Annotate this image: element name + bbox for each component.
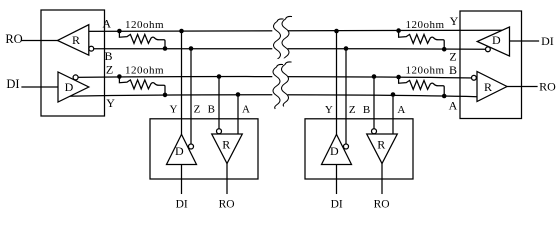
svg-text:B: B [208, 104, 215, 116]
inversion bubble U2 D output Z [189, 144, 194, 149]
wire RO output U1 [22, 40, 58, 42]
svg-text:120ohm: 120ohm [405, 65, 444, 77]
junction dot U2 Z on bus B [189, 46, 194, 51]
transceiver U4 box (right) [460, 11, 522, 119]
svg-text:DI: DI [331, 199, 343, 211]
op-amp receiver R of U1 (triangle) [58, 25, 89, 56]
inversion bubble U1 R input B [89, 46, 94, 51]
wire bus line Y (bottom pair, lower) [66, 95, 477, 97]
inversion bubble U2 R input B [217, 129, 222, 134]
op-amp driver D of U3 (triangle) [322, 134, 352, 164]
svg-text:Y: Y [450, 14, 459, 28]
op-amp receiver R of U3 (triangle) [367, 134, 398, 164]
junction dot RT1 bottom on bus B [163, 46, 168, 51]
op-amp driver D of U1 (triangle) [58, 72, 89, 102]
wire DI input U1 [22, 86, 58, 88]
junction dot U2 Y on bus A [179, 29, 184, 34]
svg-text:D: D [65, 80, 74, 94]
break gap mask lower pair [272, 58, 287, 104]
inversion bubble U3 D output Z [344, 144, 349, 149]
wire bus line B (top pair, lower) [89, 47, 486, 50]
svg-text:R: R [377, 138, 385, 152]
svg-text:B: B [363, 104, 370, 116]
wire U2 DI stub [181, 165, 183, 194]
svg-text:DI: DI [6, 77, 19, 91]
svg-text:B: B [449, 63, 457, 77]
svg-text:Y: Y [325, 104, 333, 116]
break squiggle lower-right [282, 62, 292, 106]
svg-text:R: R [72, 33, 80, 47]
junction dot U3 Y on bus A [334, 29, 339, 34]
junction dot RT4 bottom on bus Y [442, 94, 447, 99]
junction dot U3 B on bus Z [372, 74, 377, 79]
op-amp receiver R of U2 (triangle) [212, 134, 243, 164]
junction dot RT3 top on bus A [396, 28, 401, 33]
svg-text:A: A [449, 98, 458, 112]
junction dot RT2 bottom on bus Y [163, 93, 168, 98]
svg-text:D: D [175, 144, 184, 158]
svg-text:A: A [102, 17, 111, 31]
wire bus line Z (bottom pair, upper) [74, 77, 476, 78]
svg-text:A: A [397, 104, 405, 116]
svg-text:D: D [330, 144, 339, 158]
junction dot RT2 top on bus Z [117, 74, 122, 79]
junction dot U3 A on bus Y [391, 92, 396, 97]
svg-text:Y: Y [170, 104, 178, 116]
svg-text:Z: Z [194, 104, 201, 116]
wire U3 A column to bus Y [392, 95, 394, 135]
svg-text:120ohm: 120ohm [405, 19, 444, 31]
break squiggle upper-right [282, 16, 292, 60]
svg-text:RO: RO [5, 32, 22, 46]
inversion bubble U4 R input B [472, 75, 477, 80]
op-amp receiver R of U4 (triangle) [477, 72, 507, 102]
wire U3 Z column to bus B [345, 49, 347, 146]
wire U2 A column to bus Y [237, 95, 239, 135]
wire RO output U4 [507, 86, 537, 88]
break squiggle upper-left [274, 19, 284, 63]
wire U2 Z column to bus B [190, 49, 192, 146]
svg-text:R: R [484, 80, 492, 94]
svg-text:Z: Z [349, 104, 356, 116]
wire DI input U4 [510, 40, 539, 42]
wire U3 Y column to bus A [336, 31, 338, 134]
wire U2 RO stub [226, 164, 228, 194]
svg-text:120ohm: 120ohm [125, 65, 164, 77]
transceiver U3 box (middle-right) [305, 119, 413, 179]
svg-text:120ohm: 120ohm [125, 19, 164, 31]
transceiver U2 box (middle-left) [150, 119, 258, 179]
junction dot RT4 top on bus Z [396, 75, 401, 80]
junction dot U2 B on bus Z [217, 74, 222, 79]
svg-text:R: R [222, 138, 230, 152]
transceiver U1 box (left) [41, 10, 105, 116]
wire U3 RO stub [381, 164, 383, 194]
wire U3 DI stub [336, 165, 338, 194]
svg-text:A: A [242, 104, 250, 116]
svg-text:RO: RO [219, 199, 235, 211]
break gap mask upper pair [272, 13, 287, 59]
wire U2 Y column to bus A [181, 31, 183, 134]
resistor RT2 120ohm (left, Z-Y) [119, 77, 165, 95]
resistor RT1 120ohm (left, A-B) [119, 31, 165, 49]
junction dot RT3 bottom on bus B [442, 47, 447, 52]
svg-text:Y: Y [106, 96, 115, 110]
wire U3 B column to bus Z [373, 77, 375, 131]
junction dot RT1 top on bus A [117, 29, 122, 34]
junction dot U2 A on bus Y [236, 92, 241, 97]
resistor RT4 120ohm (right, Z-Y) [399, 77, 445, 96]
wire bus line A (top pair, upper) [76, 30, 503, 31]
svg-text:B: B [104, 49, 112, 63]
resistor RT3 120ohm (right, A-B) [399, 31, 445, 50]
junction dot U3 Z on bus B [344, 46, 349, 51]
inversion bubble U3 R input B [372, 129, 377, 134]
svg-text:Z: Z [449, 49, 456, 63]
svg-text:RO: RO [539, 79, 556, 93]
svg-text:DI: DI [541, 34, 554, 48]
break squiggle lower-left [273, 64, 283, 108]
svg-text:DI: DI [176, 199, 188, 211]
svg-text:RO: RO [374, 199, 390, 211]
svg-text:D: D [492, 33, 501, 47]
op-amp driver D of U2 (triangle) [167, 134, 197, 164]
inversion bubble U1 D output Z [73, 75, 78, 80]
op-amp driver D of U4 (triangle) [477, 27, 509, 56]
inversion bubble U4 D input Z [486, 47, 491, 52]
svg-text:Z: Z [106, 62, 113, 76]
wire U2 B column to bus Z [218, 77, 220, 131]
